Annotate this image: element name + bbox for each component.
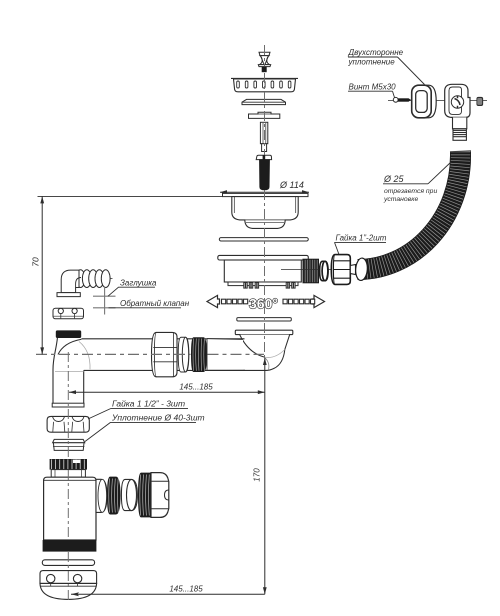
svg-text:Ø 25: Ø 25 xyxy=(383,174,405,184)
svg-text:Гайка 1”-2шт: Гайка 1”-2шт xyxy=(336,233,387,242)
svg-text:145...185: 145...185 xyxy=(169,584,203,593)
svg-text:Двухсторонне: Двухсторонне xyxy=(348,48,404,57)
svg-text:145...185: 145...185 xyxy=(179,382,213,391)
svg-text:Заглушка: Заглушка xyxy=(120,278,157,287)
svg-text:70: 70 xyxy=(31,257,41,267)
svg-text:Ø 114: Ø 114 xyxy=(279,180,304,190)
svg-text:отрезается при: отрезается при xyxy=(384,188,437,195)
svg-text:170: 170 xyxy=(253,468,262,482)
svg-text:Винт М5х30: Винт М5х30 xyxy=(349,82,397,91)
svg-text:Уплотнение Ø 40-3шт: Уплотнение Ø 40-3шт xyxy=(111,412,205,422)
svg-text:уплотнение: уплотнение xyxy=(348,58,396,67)
svg-text:360°: 360° xyxy=(249,296,278,312)
svg-text:установке: установке xyxy=(383,196,418,203)
svg-text:Обратный клапан: Обратный клапан xyxy=(120,299,190,308)
svg-text:Гайка 1 1/2” - 3шт: Гайка 1 1/2” - 3шт xyxy=(112,399,185,409)
